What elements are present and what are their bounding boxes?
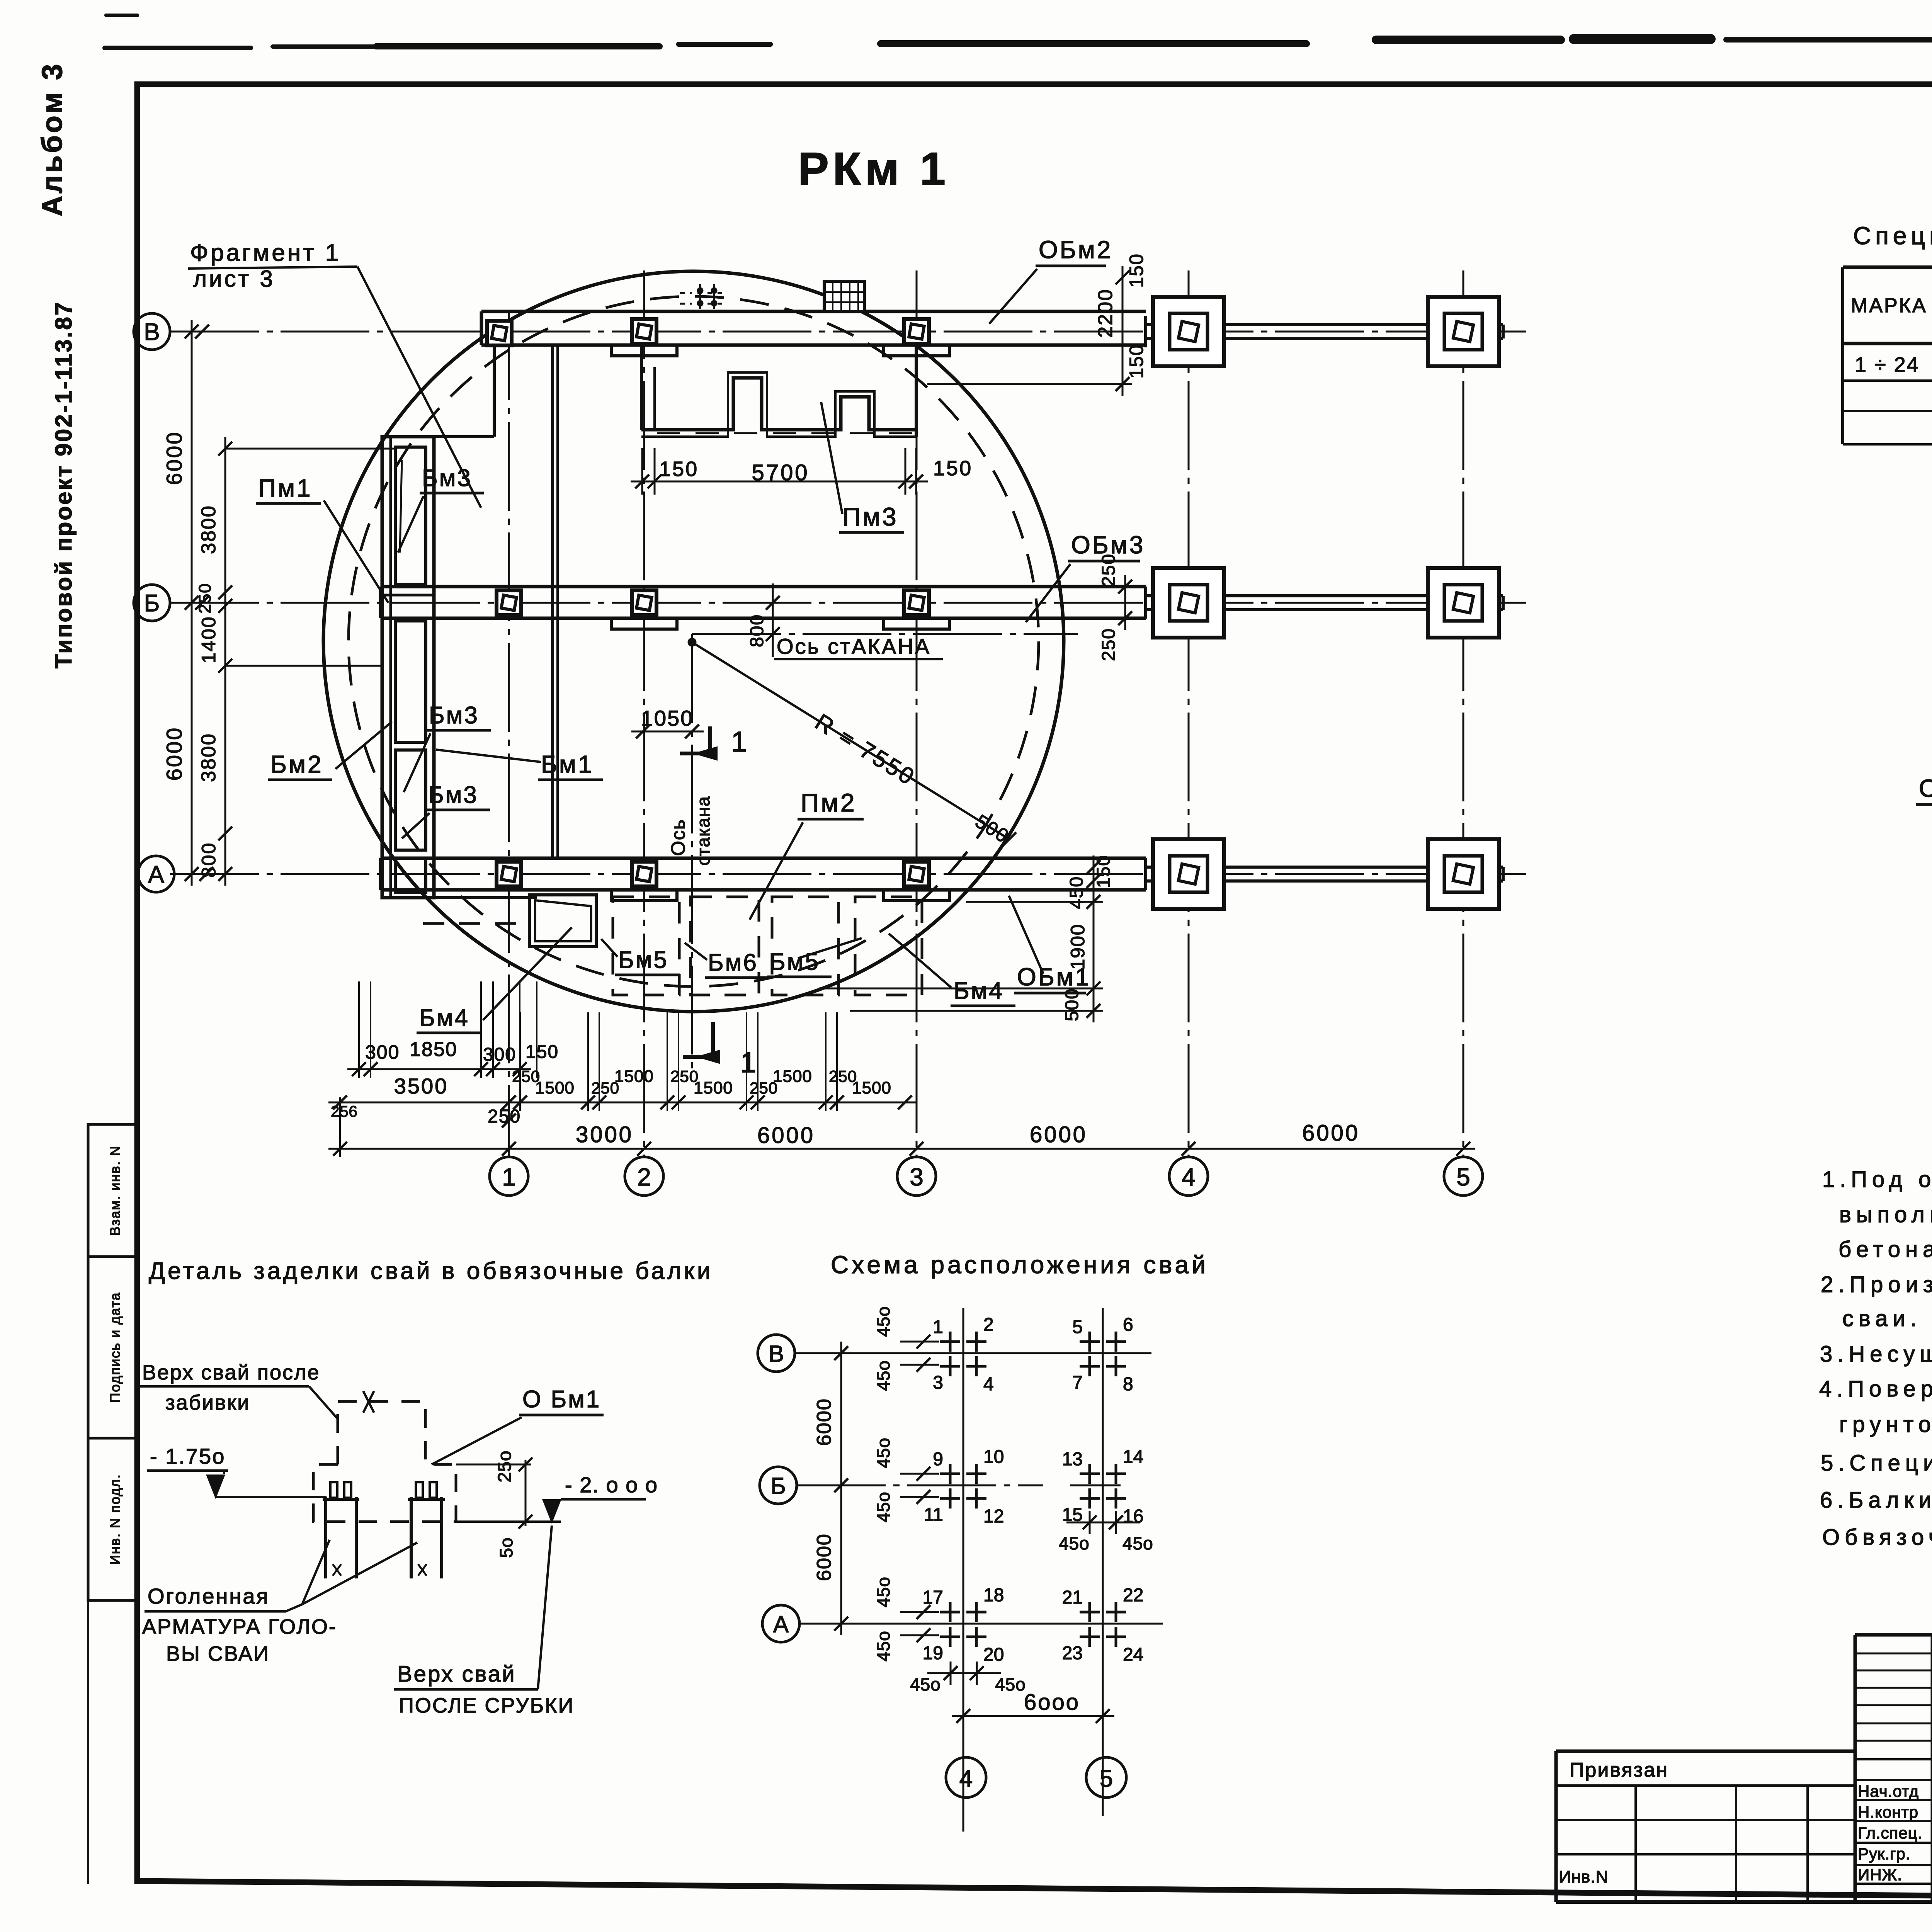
svg-text:сваи.: сваи. (1842, 1306, 1922, 1331)
svg-text:Инв. N подл.: Инв. N подл. (107, 1474, 123, 1565)
svg-text:Верх свай после: Верх свай после (142, 1361, 320, 1384)
svg-text:ПОСЛЕ СРУБКИ: ПОСЛЕ СРУБКИ (399, 1694, 574, 1717)
svg-text:Оголенная: Оголенная (148, 1584, 270, 1608)
svg-text:Инв.N: Инв.N (1559, 1867, 1608, 1886)
svg-text:Типовой проект 902-1-113.87: Типовой проект 902-1-113.87 (51, 301, 77, 668)
svg-text:5: 5 (1456, 1163, 1470, 1191)
svg-text:1900: 1900 (1067, 923, 1088, 969)
svg-text:1: 1 (933, 1317, 943, 1337)
svg-text:2.Произвести динамическое ис: 2.Произвести динамическое испытание конт… (1821, 1272, 1932, 1297)
svg-text:1 ÷ 24: 1 ÷ 24 (1855, 353, 1920, 376)
svg-text:24: 24 (1123, 1645, 1143, 1665)
svg-text:800: 800 (747, 614, 767, 647)
svg-text:8: 8 (1123, 1374, 1133, 1395)
svg-text:250: 250 (196, 583, 214, 613)
svg-text:5o: 5o (496, 1537, 516, 1558)
svg-text:- 2. o o o: - 2. o o o (565, 1473, 658, 1497)
svg-text:3.Несущая способность сваи 3: 3.Несущая способность сваи 35т. (1820, 1342, 1932, 1367)
svg-text:6000: 6000 (813, 1533, 835, 1581)
svg-text:450: 450 (1066, 876, 1087, 909)
svg-text:3800: 3800 (197, 505, 220, 554)
svg-text:18: 18 (983, 1585, 1004, 1605)
svg-text:4: 4 (959, 1765, 973, 1792)
svg-text:19: 19 (923, 1643, 943, 1663)
svg-text:6ooo: 6ooo (1024, 1690, 1080, 1715)
svg-text:- 1.75o: - 1.75o (150, 1444, 225, 1468)
svg-text:256: 256 (331, 1103, 358, 1120)
svg-text:25o: 25o (495, 1450, 515, 1482)
svg-text:6000: 6000 (162, 431, 186, 485)
svg-text:45o: 45o (873, 1577, 893, 1607)
svg-text:1500: 1500 (773, 1067, 812, 1086)
svg-text:6000: 6000 (162, 726, 186, 781)
svg-text:ИНЖ.: ИНЖ. (1858, 1866, 1902, 1884)
svg-text:4: 4 (983, 1374, 994, 1395)
svg-text:выполнить бетонную подготовк: выполнить бетонную подготовку h =100 мм … (1839, 1202, 1932, 1227)
svg-text:23: 23 (1062, 1643, 1083, 1663)
svg-text:Ось стАКАНА: Ось стАКАНА (777, 634, 931, 658)
svg-text:5700: 5700 (752, 460, 809, 485)
svg-text:Бм4: Бм4 (419, 1005, 469, 1031)
svg-text:ОКм1: ОКм1 (1919, 774, 1932, 802)
svg-text:В: В (144, 319, 160, 345)
svg-text:1850: 1850 (410, 1038, 457, 1061)
svg-text:Подпись и дата: Подпись и дата (107, 1292, 123, 1403)
svg-text:21: 21 (1062, 1587, 1083, 1608)
svg-text:1: 1 (740, 1046, 756, 1078)
svg-text:45o: 45o (873, 1492, 893, 1522)
svg-text:1: 1 (502, 1163, 516, 1191)
svg-text:16: 16 (1123, 1506, 1143, 1527)
svg-text:лист 3: лист 3 (193, 266, 275, 292)
svg-text:11: 11 (924, 1505, 943, 1525)
svg-text:45o: 45o (873, 1360, 893, 1391)
svg-text:Привязан: Привязан (1570, 1759, 1668, 1781)
svg-text:2200: 2200 (1094, 288, 1117, 338)
svg-text:5.Спецификацию РКм1 см. лис: 5.Спецификацию РКм1 см. лист 12÷14 (1821, 1451, 1932, 1476)
svg-text:Нач.отд: Нач.отд (1858, 1782, 1919, 1800)
svg-text:6000: 6000 (1302, 1121, 1360, 1146)
svg-text:Бм5: Бм5 (618, 947, 668, 973)
svg-text:1050: 1050 (641, 706, 694, 730)
svg-text:2: 2 (637, 1163, 651, 1191)
svg-text:150: 150 (659, 457, 699, 481)
svg-text:АРМАТУРА ГОЛО-: АРМАТУРА ГОЛО- (142, 1615, 337, 1638)
svg-text:ВЫ СВАИ: ВЫ СВАИ (166, 1642, 270, 1665)
svg-text:45o: 45o (995, 1674, 1026, 1694)
svg-text:3: 3 (910, 1163, 923, 1191)
svg-text:4.Поверхности перекрытия, со: 4.Поверхности перекрытия, соприкасающиес… (1819, 1376, 1932, 1401)
svg-text:20: 20 (983, 1645, 1004, 1665)
svg-text:Бм3: Бм3 (422, 465, 472, 492)
svg-text:250: 250 (1099, 553, 1119, 587)
svg-text:6.Балки Бм1 ÷ Бм6 см. лист: 6.Балки Бм1 ÷ Бм6 см. лист 10÷11 (1820, 1488, 1932, 1513)
svg-text:4: 4 (1182, 1163, 1196, 1191)
svg-text:7: 7 (1072, 1372, 1083, 1393)
svg-text:Бм2: Бм2 (270, 750, 323, 778)
svg-text:Взам. инв. N: Взам. инв. N (107, 1145, 123, 1236)
svg-text:45o: 45o (1059, 1533, 1090, 1553)
svg-text:45o: 45o (873, 1437, 893, 1468)
svg-text:забивки: забивки (165, 1391, 250, 1414)
svg-text:12: 12 (983, 1506, 1004, 1527)
svg-text:стакана: стакана (693, 796, 713, 866)
svg-text:3500: 3500 (394, 1074, 449, 1098)
svg-text:1500: 1500 (614, 1067, 654, 1086)
svg-text:Пм2: Пм2 (801, 788, 857, 817)
svg-text:150: 150 (1126, 344, 1147, 378)
svg-text:Гл.спец.: Гл.спец. (1858, 1824, 1922, 1842)
svg-text:6000: 6000 (1030, 1122, 1087, 1147)
svg-text:О Бм1: О Бм1 (522, 1386, 601, 1413)
svg-text:45o: 45o (1122, 1533, 1153, 1553)
svg-text:150: 150 (1094, 855, 1114, 888)
svg-text:5: 5 (1100, 1765, 1113, 1792)
svg-text:Н.контр: Н.контр (1858, 1803, 1918, 1821)
svg-text:10: 10 (983, 1447, 1004, 1467)
svg-text:150: 150 (933, 457, 973, 480)
svg-text:Б: Б (144, 590, 160, 617)
svg-text:150: 150 (1126, 253, 1147, 287)
svg-text:Пм1: Пм1 (258, 474, 313, 502)
svg-text:45o: 45o (910, 1674, 941, 1694)
svg-text:Схема расположения свай: Схема расположения свай (831, 1251, 1209, 1279)
svg-text:300: 300 (483, 1044, 516, 1065)
svg-text:ОБм2: ОБм2 (1039, 236, 1112, 264)
svg-text:3000: 3000 (576, 1122, 633, 1147)
svg-text:Рук.гр.: Рук.гр. (1858, 1845, 1910, 1863)
svg-text:А: А (148, 861, 164, 888)
svg-text:2: 2 (983, 1315, 994, 1335)
svg-text:Бм1: Бм1 (541, 750, 594, 778)
svg-text:Альбом 3: Альбом 3 (36, 62, 68, 216)
svg-text:Деталь заделки свай в обвяз: Деталь заделки свай в обвязочные балки (149, 1258, 713, 1284)
svg-text:500: 500 (1062, 988, 1082, 1021)
svg-text:1400: 1400 (198, 616, 219, 663)
svg-text:Спецификация к схеме распол: Спецификация к схеме расположения свай (1853, 222, 1932, 250)
svg-text:Бм3: Бм3 (429, 702, 479, 729)
svg-text:А: А (773, 1611, 789, 1637)
svg-text:3800: 3800 (197, 733, 220, 782)
svg-text:150: 150 (526, 1042, 559, 1062)
svg-text:Б: Б (770, 1473, 786, 1499)
svg-text:6000: 6000 (757, 1123, 815, 1148)
svg-text:бетона В 2,5 по щебеночному: бетона В 2,5 по щебеночному основанию h … (1838, 1237, 1932, 1262)
svg-text:250: 250 (1099, 628, 1119, 661)
svg-text:Бм4: Бм4 (954, 978, 1004, 1004)
svg-text:22: 22 (1123, 1585, 1143, 1605)
svg-text:грунтом, покрыть горячим би: грунтом, покрыть горячим битумом за 2 ра… (1839, 1412, 1932, 1437)
svg-text:МАРКА: МАРКА (1851, 294, 1927, 317)
svg-text:14: 14 (1123, 1447, 1143, 1467)
svg-text:800: 800 (198, 842, 219, 878)
svg-text:3: 3 (933, 1372, 943, 1393)
svg-text:Верх свай: Верх свай (397, 1662, 516, 1687)
svg-text:Ось: Ось (667, 819, 689, 856)
svg-text:Пм3: Пм3 (842, 502, 898, 531)
svg-text:9: 9 (933, 1449, 943, 1469)
svg-text:17: 17 (923, 1587, 943, 1608)
svg-text:1.Под обвязочными балками ОБ: 1.Под обвязочными балками ОБм1÷ОБм3 в ос… (1822, 1167, 1932, 1192)
svg-text:Обвязочные балки ОБм1 ÷ ОБм3: Обвязочные балки ОБм1 ÷ ОБм3 см. лист 4 … (1822, 1525, 1932, 1550)
svg-text:6: 6 (1123, 1315, 1133, 1335)
svg-text:45o: 45o (873, 1631, 893, 1662)
svg-text:Фрагмент 1: Фрагмент 1 (190, 240, 341, 266)
svg-text:1: 1 (731, 726, 747, 758)
svg-text:1500: 1500 (852, 1078, 891, 1097)
svg-text:1500: 1500 (694, 1078, 733, 1097)
svg-text:13: 13 (1062, 1449, 1083, 1469)
svg-text:5: 5 (1072, 1317, 1083, 1337)
svg-text:РКм 1: РКм 1 (798, 143, 949, 195)
svg-text:Бм3: Бм3 (428, 782, 478, 808)
svg-text:45o: 45o (873, 1306, 893, 1337)
svg-text:6000: 6000 (813, 1398, 835, 1446)
svg-text:В: В (769, 1341, 784, 1367)
svg-text:1500: 1500 (535, 1078, 575, 1097)
svg-text:Бм6: Бм6 (708, 949, 758, 976)
